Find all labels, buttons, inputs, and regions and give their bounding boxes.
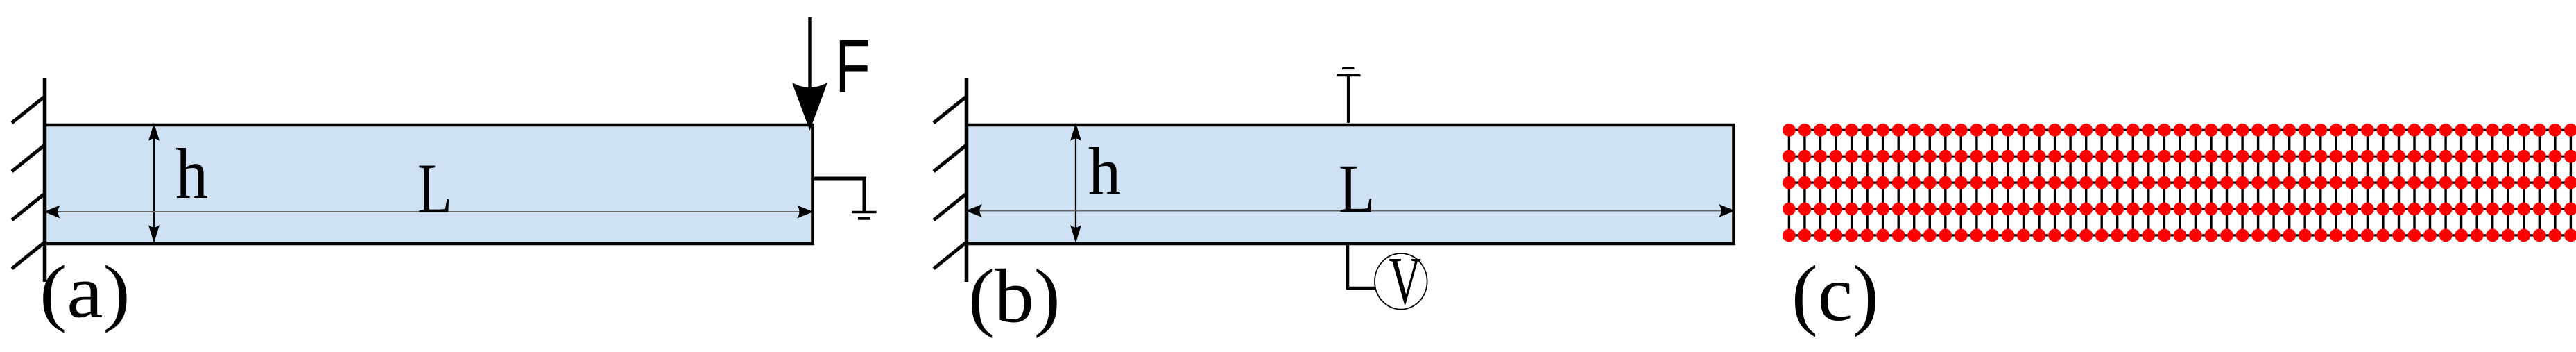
wall hatch 1 (b) (934, 97, 965, 123)
force arrow F head (a) (792, 83, 827, 131)
ground bar long (a) (852, 211, 877, 214)
top ground bar long (b) (1337, 74, 1361, 76)
ground wire (a) (813, 178, 865, 211)
h dimension arrow (a) (148, 123, 160, 243)
svg-text:h: h (1088, 134, 1121, 208)
lattice vertical bonds (1789, 130, 2570, 235)
svg-text:(a): (a) (40, 251, 130, 334)
svg-text:h: h (175, 134, 208, 214)
svg-text:(b): (b) (968, 254, 1061, 339)
ground bar short (a) (858, 217, 870, 219)
voltmeter circle (b) (1375, 253, 1427, 310)
lattice horizontal bond row 1 (1789, 129, 2570, 131)
L dimension line (b) (966, 204, 1735, 217)
wall hatch 3 (a) (12, 194, 44, 220)
svg-text:L: L (1339, 150, 1375, 227)
svg-text:(c): (c) (1792, 249, 1879, 337)
svg-text:F: F (835, 24, 870, 109)
svg-text:V: V (1389, 244, 1421, 318)
lattice horizontal bond row 4 (1789, 208, 2570, 210)
force arrow F shaft (a) (808, 17, 811, 90)
lattice atoms row 5 (1783, 229, 2576, 242)
L dimension line (a) (44, 206, 814, 219)
lattice horizontal bond row 3 (1789, 182, 2570, 184)
beam (b) body (967, 125, 1734, 244)
lattice horizontal bond row 2 (1789, 156, 2570, 158)
wall hatch 2 (a) (12, 146, 44, 171)
svg-text:L: L (418, 149, 452, 228)
beam (a) body (45, 125, 813, 244)
lattice atoms row 3 (1783, 176, 2576, 190)
wall hatch 4 (a) (12, 243, 44, 269)
lattice atoms row 2 (1783, 150, 2576, 163)
top ground bar short (b) (1342, 67, 1355, 69)
wall line (b) (965, 78, 969, 282)
voltmeter wire (b) (1348, 244, 1375, 288)
wall hatch 4 (b) (934, 243, 965, 269)
lattice atoms row 1 (1783, 124, 2576, 137)
lattice horizontal bond row 5 (1789, 234, 2570, 236)
top ground stem (b) (1347, 76, 1350, 124)
wall line (a) (43, 78, 47, 282)
wall hatch 3 (b) (934, 194, 965, 220)
wall hatch 2 (b) (934, 146, 965, 171)
h dimension arrow (b) (1070, 123, 1081, 243)
wall hatch 1 (a) (12, 97, 44, 123)
lattice atoms row 4 (1783, 203, 2576, 216)
